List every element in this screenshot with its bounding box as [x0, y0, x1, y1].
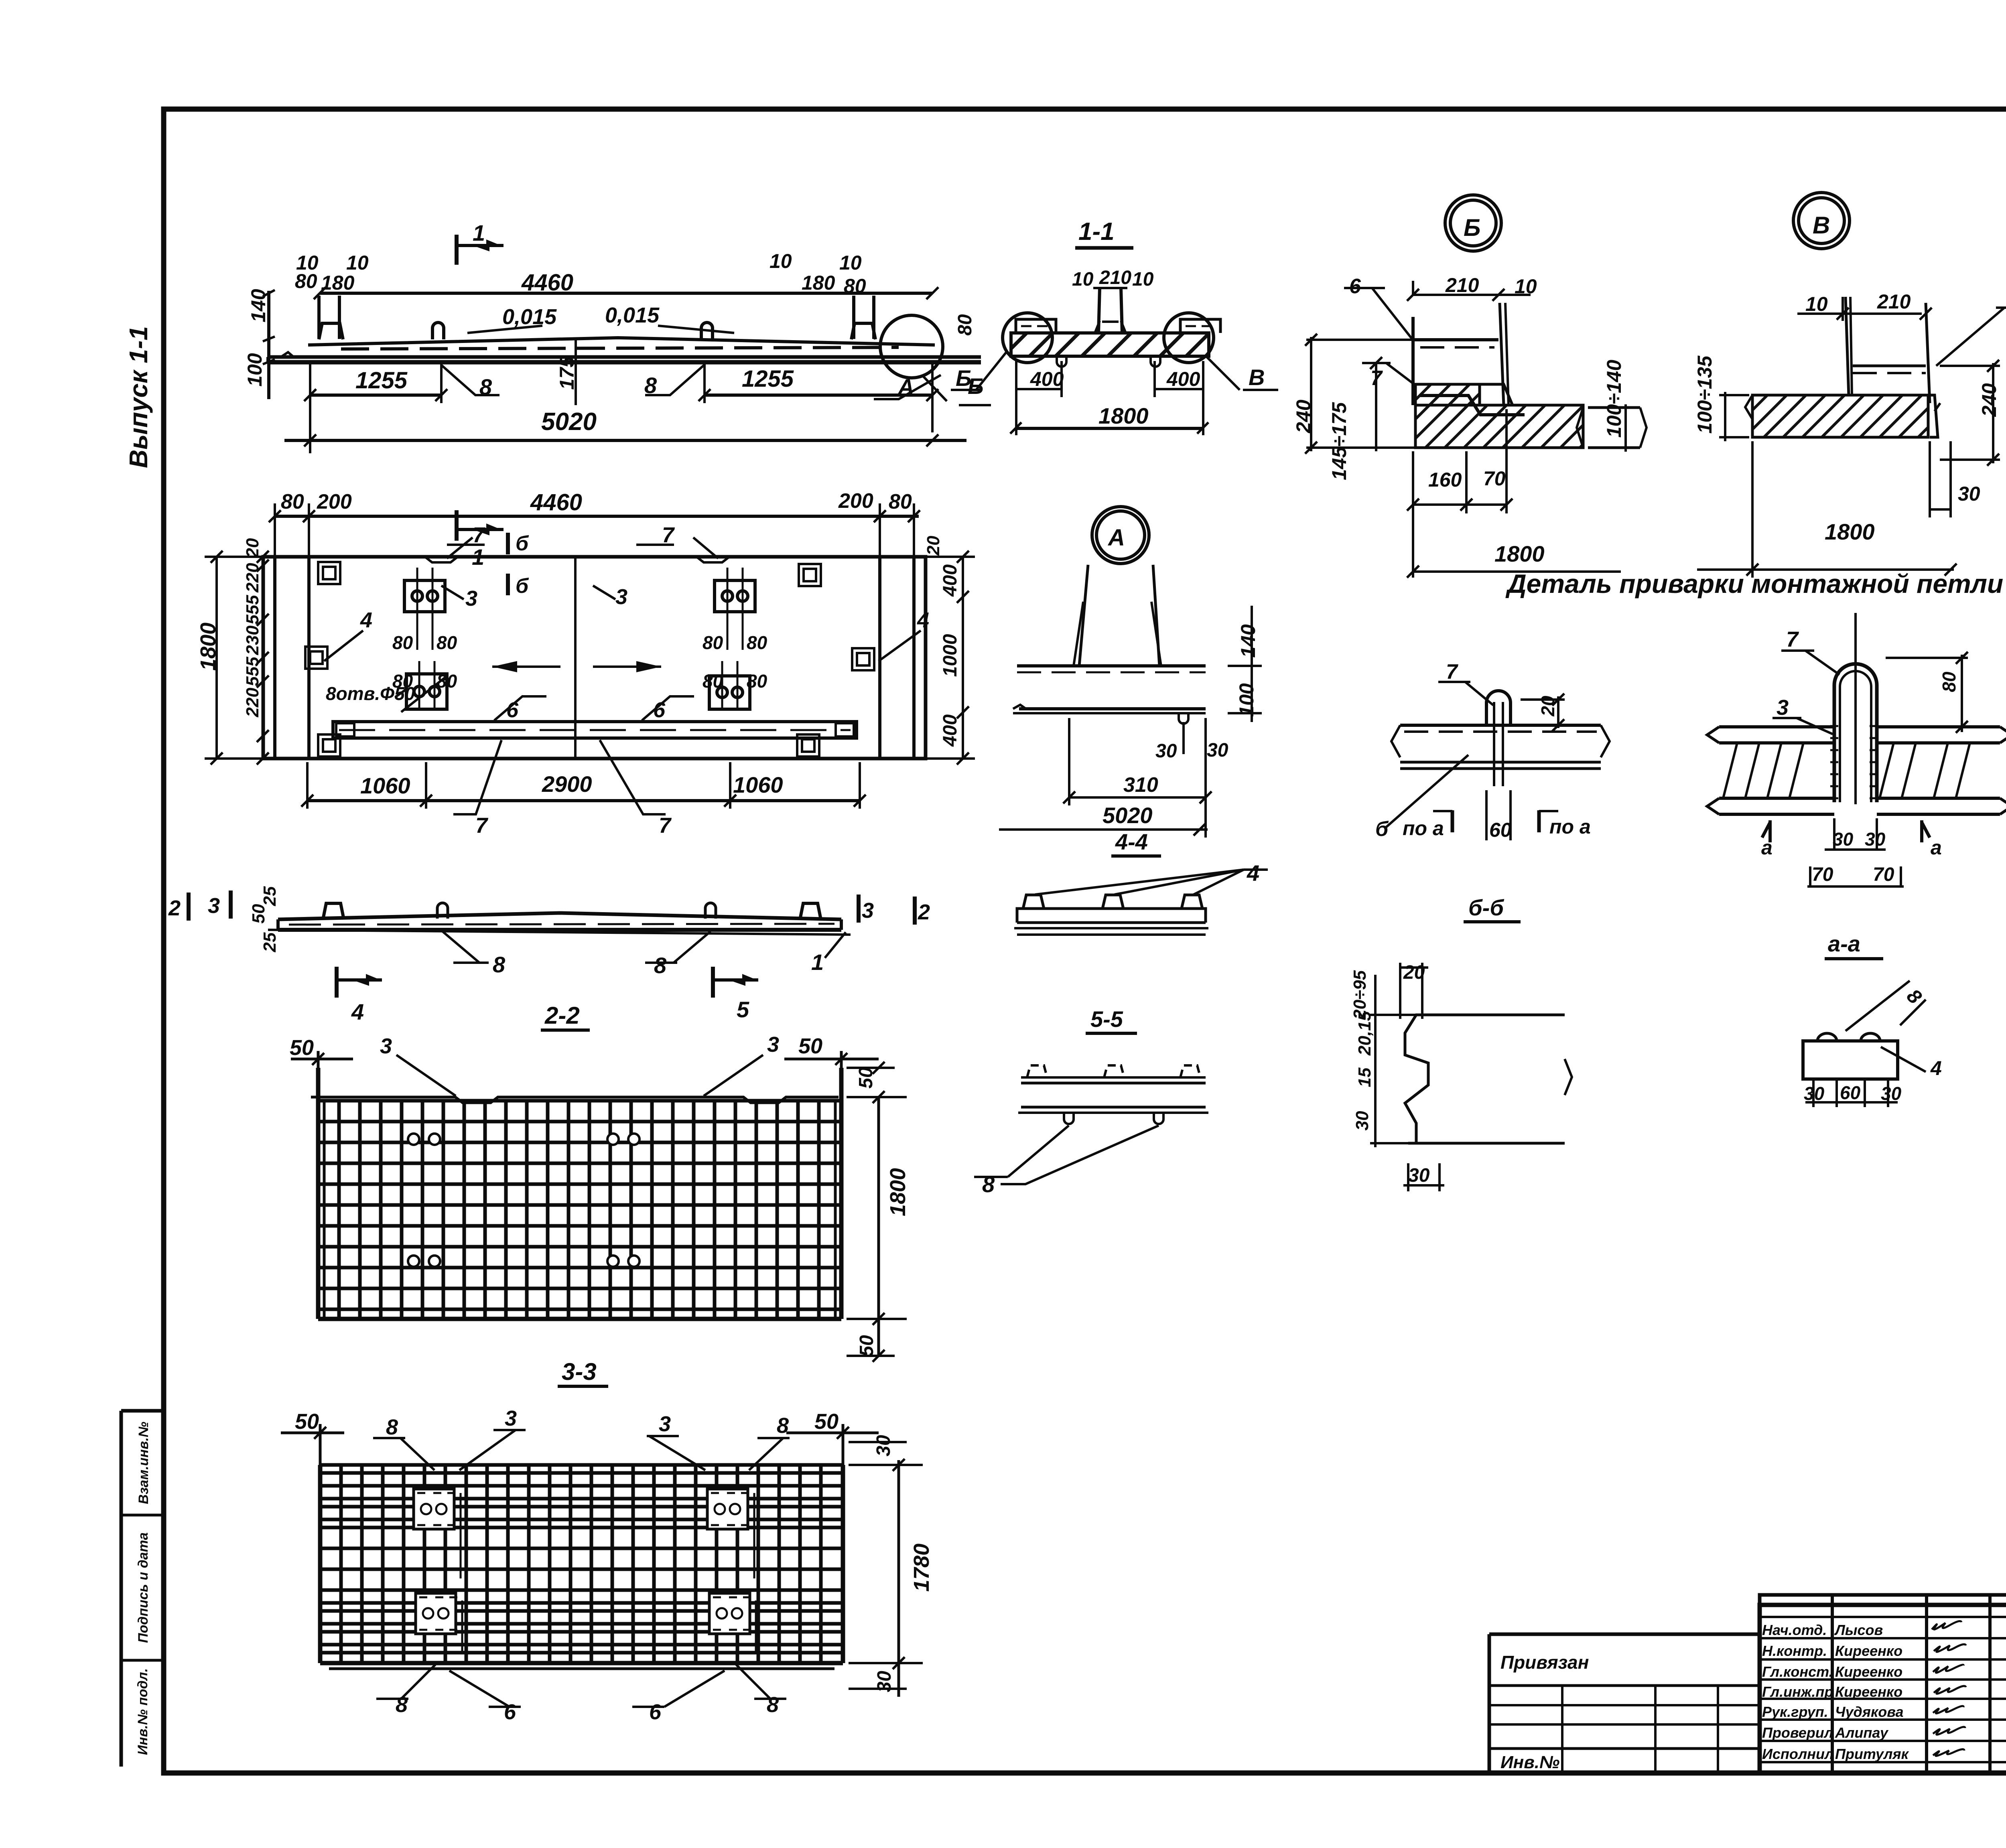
dim 1800 — [1751, 441, 1754, 578]
item 4 strip view — [1017, 909, 1206, 923]
svg-text:25: 25 — [260, 886, 280, 906]
dim 240 right — [1940, 365, 2000, 367]
svg-text:0,015: 0,015 — [605, 303, 660, 327]
leader 7 — [1805, 651, 1840, 675]
svg-text:30: 30 — [874, 1671, 895, 1692]
leader 7 — [1465, 682, 1493, 705]
dim 1255 left — [310, 394, 441, 397]
svg-text:60: 60 — [1840, 1082, 1861, 1103]
svg-text:30: 30 — [1352, 1111, 1372, 1130]
svg-text:400: 400 — [940, 564, 961, 597]
plan outline — [263, 557, 926, 759]
svg-text:3: 3 — [465, 586, 477, 611]
svg-text:1-1: 1-1 — [1078, 218, 1115, 245]
svg-text:50: 50 — [798, 1034, 822, 1058]
embedded plate bottom-right — [709, 676, 750, 709]
svg-text:10: 10 — [770, 250, 792, 272]
callout circle — [1793, 193, 1850, 249]
small MH detail below — [1803, 1041, 1898, 1079]
svg-text:400: 400 — [1166, 368, 1200, 390]
svg-text:3: 3 — [208, 894, 220, 918]
svg-text:210: 210 — [1877, 290, 1911, 313]
loops below — [1057, 356, 1066, 367]
svg-text:1780: 1780 — [910, 1544, 934, 1592]
svg-text:200: 200 — [317, 490, 352, 513]
dim 400 — [1015, 361, 1017, 435]
svg-text:80: 80 — [747, 671, 767, 692]
svg-text:Киреенко: Киреенко — [1835, 1643, 1902, 1659]
svg-text:а-а: а-а — [1828, 931, 1860, 956]
bar section wedges — [1723, 743, 1759, 798]
svg-text:145÷175: 145÷175 — [1328, 402, 1350, 480]
svg-text:555: 555 — [243, 595, 262, 625]
svg-text:30: 30 — [1865, 829, 1886, 850]
svg-text:1255: 1255 — [742, 366, 794, 392]
centre line — [1854, 613, 1857, 804]
dim 100-140 right — [1589, 406, 1632, 409]
mesh grid — [320, 1465, 843, 1663]
svg-text:30: 30 — [1881, 1083, 1902, 1104]
svg-text:80: 80 — [747, 632, 767, 653]
svg-text:Подпись и дата: Подпись и дата — [136, 1532, 151, 1643]
svg-text:2900: 2900 — [542, 771, 592, 797]
loop leg — [1411, 317, 1415, 405]
svg-text:30: 30 — [873, 1435, 894, 1456]
dims top 10/210 — [1797, 312, 1922, 315]
left attachment table — [1489, 1633, 1760, 1636]
svg-text:230: 230 — [243, 625, 262, 655]
svg-text:3: 3 — [862, 899, 874, 923]
svg-text:3: 3 — [505, 1406, 517, 1430]
dim 4460 — [320, 292, 932, 295]
5-5 title underline — [1086, 1032, 1137, 1035]
svg-text:8: 8 — [386, 1415, 398, 1439]
svg-text:2: 2 — [168, 896, 181, 920]
svg-text:180: 180 — [321, 272, 355, 294]
svg-text:60: 60 — [1489, 819, 1512, 841]
leaders 8 — [443, 931, 479, 963]
dim 100-135 left — [1719, 394, 1749, 396]
bumps — [323, 903, 344, 919]
top slab line with dashed — [1413, 338, 1498, 341]
svg-text:Киреенко: Киреенко — [1835, 1663, 1902, 1680]
svg-text:1060: 1060 — [360, 773, 410, 798]
dim 1255 right — [705, 394, 932, 397]
slab strip — [278, 913, 841, 919]
b-b slab — [1400, 724, 1601, 727]
svg-text:4: 4 — [360, 608, 372, 632]
svg-text:7: 7 — [659, 813, 672, 838]
svg-text:8: 8 — [396, 1693, 408, 1717]
embedded plate MH1 top-left — [404, 580, 445, 612]
svg-text:Деталь приварки монтажной петл: Деталь приварки монтажной петли — [1505, 569, 2003, 598]
svg-text:400: 400 — [1030, 368, 1064, 390]
svg-text:180: 180 — [802, 272, 835, 294]
top edge notches — [425, 557, 458, 562]
right rib bump — [851, 323, 875, 339]
leader 7 — [1386, 363, 1413, 383]
svg-text:25: 25 — [260, 932, 280, 952]
vertical dim lines left — [267, 291, 270, 399]
1-1 section slab — [1011, 333, 1209, 356]
svg-text:8: 8 — [493, 952, 506, 977]
svg-text:50: 50 — [814, 1410, 839, 1434]
svg-text:3: 3 — [615, 585, 627, 609]
A/B callout leader — [874, 375, 941, 399]
svg-text:240: 240 — [1978, 383, 2000, 417]
svg-text:0,015: 0,015 — [502, 305, 557, 329]
svg-text:Выпуск 1-1: Выпуск 1-1 — [124, 326, 153, 468]
right dims — [897, 1460, 900, 1697]
svg-text:1800: 1800 — [1494, 541, 1545, 566]
svg-text:100: 100 — [244, 353, 266, 387]
svg-text:100: 100 — [1235, 683, 1258, 717]
po-a flags — [1451, 810, 1454, 832]
edge bars — [316, 1068, 321, 1319]
dim 80 right — [1886, 657, 1968, 659]
svg-text:Инв.№ подл.: Инв.№ подл. — [135, 1668, 150, 1755]
Z bent bar — [1420, 396, 1525, 415]
svg-text:80: 80 — [437, 632, 457, 653]
lifting loop right — [701, 323, 713, 339]
svg-text:4: 4 — [351, 999, 364, 1024]
svg-text:Исполнил: Исполнил — [1762, 1746, 1833, 1762]
svg-text:6: 6 — [1349, 275, 1361, 298]
leader 6 — [1372, 288, 1413, 340]
main outline — [1760, 1605, 2006, 1773]
svg-text:8: 8 — [654, 953, 667, 978]
dim 1800 — [1015, 427, 1202, 430]
signature scribbles — [1932, 1621, 1966, 1756]
concrete hatch — [1752, 395, 1928, 437]
svg-text:А: А — [1107, 525, 1125, 551]
svg-text:а: а — [1931, 836, 1942, 859]
svg-text:Гл.инж.пр: Гл.инж.пр — [1762, 1684, 1833, 1700]
svg-text:30: 30 — [1833, 829, 1854, 850]
svg-text:20: 20 — [924, 536, 943, 556]
slope arrows — [467, 326, 542, 333]
svg-text:Гл.конст.: Гл.конст. — [1762, 1663, 1833, 1680]
right dims — [877, 1097, 880, 1356]
leader 8 left — [441, 365, 499, 395]
top dim — [281, 1432, 344, 1434]
centre bump — [1098, 288, 1100, 333]
callout circle — [1445, 195, 1501, 251]
rails (mesh bars in section) — [1719, 727, 2000, 814]
svg-text:220: 220 — [243, 563, 262, 593]
top dim line with 50 — [291, 1058, 353, 1061]
bottom bar item 6 — [333, 722, 857, 738]
svg-text:100÷140: 100÷140 — [1603, 360, 1625, 438]
svg-text:В: В — [1813, 212, 1830, 239]
svg-text:80: 80 — [703, 671, 723, 692]
concrete hatch — [1415, 384, 1480, 405]
direction arrows — [492, 665, 560, 668]
leader 3 — [1797, 718, 1833, 734]
svg-text:4-4: 4-4 — [1115, 829, 1148, 854]
svg-text:Рук.груп.: Рук.груп. — [1762, 1704, 1828, 1720]
loop legs — [1846, 297, 1849, 395]
svg-text:5020: 5020 — [1102, 803, 1153, 828]
svg-text:20,15: 20,15 — [1355, 1011, 1375, 1056]
section flag 1 top — [455, 235, 459, 265]
b-b underline — [1464, 920, 1521, 923]
svg-text:210: 210 — [1445, 274, 1479, 296]
dim 60 — [1485, 790, 1488, 840]
svg-text:30: 30 — [1958, 483, 1980, 505]
svg-text:310: 310 — [1123, 773, 1158, 797]
leader 7 — [1936, 308, 2004, 366]
svg-text:2-2: 2-2 — [544, 1002, 580, 1029]
svg-text:7: 7 — [475, 813, 489, 838]
svg-text:4: 4 — [1247, 860, 1259, 886]
bottom dim line — [307, 799, 860, 802]
svg-text:Взам.инв.№: Взам.инв.№ — [136, 1422, 151, 1504]
svg-text:30: 30 — [1155, 740, 1177, 762]
svg-text:50: 50 — [295, 1410, 319, 1434]
dim 240/145 left — [1306, 339, 1413, 341]
svg-text:4: 4 — [917, 608, 929, 632]
lifting loop left — [432, 323, 444, 339]
svg-text:В: В — [1249, 365, 1265, 390]
svg-text:Б: Б — [1464, 214, 1480, 241]
embedded plate bottom-left with hole — [406, 674, 447, 709]
left section ticks 2,3 — [187, 893, 191, 921]
bottom leaders — [401, 1665, 435, 1699]
loop (item 7) — [1834, 664, 1877, 802]
svg-text:б: б — [516, 532, 529, 555]
svg-text:Нач.отд.: Нач.отд. — [1762, 1622, 1827, 1638]
svg-text:1255: 1255 — [355, 367, 408, 394]
section flag 1 bottom — [455, 510, 459, 541]
svg-text:1060: 1060 — [733, 772, 783, 797]
svg-text:1: 1 — [473, 220, 485, 245]
svg-text:8: 8 — [1902, 984, 1926, 1008]
svg-text:Лысов: Лысов — [1834, 1622, 1883, 1638]
detail A circle — [1092, 507, 1149, 564]
svg-text:б: б — [1375, 818, 1389, 841]
svg-text:б-б: б-б — [1468, 895, 1504, 920]
svg-text:50: 50 — [290, 1036, 314, 1060]
right dim verticals — [927, 556, 975, 558]
svg-text:Киреенко: Киреенко — [1835, 1684, 1902, 1700]
svg-text:3: 3 — [1777, 696, 1789, 720]
4-4 funnel detail — [1079, 565, 1088, 666]
svg-text:10: 10 — [839, 252, 862, 274]
svg-text:4460: 4460 — [530, 489, 582, 515]
svg-text:3: 3 — [380, 1034, 392, 1058]
svg-text:Инв.№: Инв.№ — [1500, 1753, 1559, 1772]
heading — [1505, 569, 2003, 598]
svg-text:по а: по а — [1403, 817, 1444, 840]
slab body lines — [268, 355, 981, 359]
svg-text:1: 1 — [811, 949, 824, 975]
embedded squares — [414, 1489, 750, 1634]
svg-text:15: 15 — [1355, 1067, 1375, 1087]
svg-text:б: б — [516, 574, 529, 598]
svg-text:80: 80 — [392, 671, 413, 692]
svg-text:50: 50 — [855, 1067, 877, 1089]
svg-text:1800: 1800 — [886, 1168, 910, 1216]
mesh grid — [318, 1101, 841, 1319]
dim 20 — [1521, 698, 1565, 701]
loops — [437, 903, 448, 919]
slab top surface — [308, 338, 935, 345]
profile dims — [1370, 1014, 1416, 1016]
svg-text:80: 80 — [295, 270, 317, 292]
slab outline over mesh — [311, 1097, 839, 1103]
left rib bump — [319, 323, 343, 339]
svg-text:3: 3 — [767, 1033, 779, 1057]
svg-text:6: 6 — [649, 1700, 662, 1724]
corner squares MH2 — [305, 562, 874, 757]
svg-text:80: 80 — [281, 490, 304, 513]
svg-text:50: 50 — [249, 904, 268, 923]
svg-text:80: 80 — [392, 632, 413, 653]
dims 30/70 — [1833, 818, 1835, 850]
svg-text:20: 20 — [243, 538, 262, 558]
svg-text:1800: 1800 — [1825, 519, 1875, 544]
svg-text:Чудякова: Чудякова — [1835, 1704, 1904, 1720]
svg-text:30: 30 — [1408, 1165, 1430, 1186]
svg-text:70: 70 — [1873, 864, 1894, 885]
callout circles on 1-1 — [1003, 313, 1052, 363]
svg-text:Проверил: Проверил — [1762, 1724, 1833, 1741]
svg-text:Алипау: Алипау — [1835, 1724, 1889, 1741]
svg-text:8: 8 — [982, 1172, 995, 1197]
signature rows — [1760, 1616, 2006, 1618]
svg-text:10: 10 — [1072, 269, 1094, 290]
svg-text:200: 200 — [838, 489, 873, 513]
svg-text:4460: 4460 — [521, 270, 573, 296]
svg-text:80: 80 — [844, 275, 866, 297]
svg-text:50: 50 — [856, 1335, 877, 1357]
svg-text:140: 140 — [1237, 624, 1259, 658]
edge profile detail — [1405, 1015, 1565, 1143]
b section ticks — [506, 533, 510, 554]
svg-text:10: 10 — [1132, 269, 1154, 290]
a-a underline — [1825, 957, 1883, 960]
svg-text:3: 3 — [659, 1412, 671, 1436]
svg-text:Притуляк: Притуляк — [1835, 1746, 1909, 1762]
leaders — [447, 538, 473, 558]
weld hatch on legs — [1830, 726, 1878, 798]
svg-text:10: 10 — [1805, 293, 1828, 315]
dim 210/10 top — [1413, 294, 1531, 296]
1-1 title — [1078, 218, 1115, 245]
svg-text:80: 80 — [437, 671, 457, 692]
svg-text:220: 220 — [243, 688, 262, 718]
svg-text:Б: Б — [956, 365, 972, 391]
svg-text:160: 160 — [1428, 469, 1462, 491]
svg-text:1800: 1800 — [1098, 403, 1149, 428]
svg-text:7: 7 — [1446, 660, 1458, 684]
left margin strip — [120, 1411, 123, 1767]
svg-text:5: 5 — [737, 997, 749, 1022]
svg-text:Привязан: Привязан — [1500, 1652, 1589, 1673]
signature table columns — [1760, 1595, 2006, 1773]
svg-text:1000: 1000 — [940, 634, 961, 677]
leaders — [400, 1438, 434, 1470]
section flags 4 and 5 — [335, 967, 339, 998]
svg-text:80: 80 — [703, 632, 723, 653]
right edge plate — [1500, 303, 1504, 405]
svg-text:5020: 5020 — [541, 408, 597, 436]
svg-text:Н.контр.: Н.контр. — [1762, 1643, 1827, 1659]
svg-text:80: 80 — [954, 314, 976, 336]
a flags — [1762, 820, 1770, 842]
left dim verticals — [205, 556, 263, 558]
svg-text:5-5: 5-5 — [1090, 1006, 1123, 1032]
svg-text:4: 4 — [1930, 1057, 1942, 1079]
top plate lines — [1853, 365, 1926, 367]
svg-text:100÷135: 100÷135 — [1693, 355, 1716, 434]
svg-text:2: 2 — [918, 900, 930, 924]
svg-text:10: 10 — [346, 252, 369, 274]
svg-text:30: 30 — [1207, 740, 1228, 761]
4-4 dims — [1228, 665, 1262, 667]
dim 5020 — [284, 439, 966, 442]
leader b — [1386, 755, 1468, 827]
svg-text:80: 80 — [1939, 671, 1959, 692]
dim 30 bottom — [1929, 441, 1931, 517]
5-5 strip view — [1021, 1082, 1206, 1085]
svg-text:по а: по а — [1549, 815, 1591, 838]
small circles — [408, 1134, 640, 1267]
end blocks — [1016, 319, 1056, 333]
svg-text:210: 210 — [1099, 267, 1131, 288]
detail A callout circle — [880, 315, 943, 378]
2-2 underline — [541, 1028, 590, 1032]
centre line — [574, 557, 577, 759]
svg-text:80: 80 — [889, 490, 912, 513]
svg-text:70: 70 — [1483, 467, 1506, 490]
svg-text:70: 70 — [1812, 864, 1833, 885]
loop — [1486, 691, 1511, 726]
svg-text:3-3: 3-3 — [562, 1358, 597, 1385]
dims 160/70/1800 bottom — [1412, 451, 1414, 578]
top dim line 4460 — [275, 515, 919, 518]
embedded plate MH1 top-right — [715, 580, 755, 612]
long row lines to left of title block — [1244, 1668, 1489, 1669]
svg-text:7: 7 — [1786, 627, 1799, 651]
